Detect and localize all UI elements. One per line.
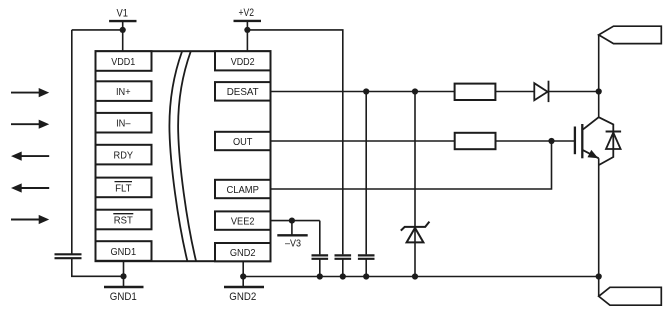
wire +V2 to VDD2 rail: [247, 30, 342, 255]
wire DESAT cap branch: [365, 92, 367, 255]
capacitor C4: [358, 255, 375, 258]
arrow RDY output: [11, 152, 49, 161]
wire GND2 pin down: [242, 261, 244, 287]
wire zener branch: [414, 92, 416, 277]
pin VDD1: [96, 51, 152, 71]
svg-text:CLAMP: CLAMP: [226, 184, 259, 196]
wire OUT: [271, 140, 455, 142]
wire V1 to left rail: [72, 29, 123, 31]
svg-text:GND1: GND1: [110, 246, 136, 258]
pin GND2: [215, 243, 271, 261]
svg-text:RST: RST: [114, 214, 134, 226]
pin GND1: [96, 241, 152, 261]
wire GND1 pin down: [123, 261, 125, 287]
svg-text:OUT: OUT: [233, 136, 253, 148]
wire emitter down: [598, 158, 600, 296]
svg-text:GND2: GND2: [229, 291, 256, 303]
junction GND2 node: [240, 273, 246, 279]
transistor Q1 IGBT: [575, 117, 599, 158]
wire VEE2: [271, 220, 320, 222]
junction gate node: [548, 138, 554, 144]
pin IN-: [96, 113, 152, 133]
arrow IN- input: [11, 120, 49, 129]
svg-text:+V2: +V2: [239, 7, 255, 19]
wire C4 to GND2 rail: [365, 260, 367, 277]
pin VEE2: [215, 211, 271, 229]
wire GND2 rail: [243, 276, 599, 278]
power symbol -V3: [277, 221, 307, 236]
svg-text:–V3: –V3: [285, 238, 301, 249]
junction V1 node: [120, 27, 126, 33]
pin VDD2: [215, 51, 271, 70]
junction VEE2 node: [289, 218, 295, 224]
svg-text:VEE2: VEE2: [231, 215, 255, 227]
junction C4 rail: [363, 273, 369, 279]
junction zener node: [412, 88, 418, 94]
diode D1: [534, 81, 548, 102]
svg-text:GND1: GND1: [110, 291, 137, 303]
junction DESAT blanking node: [363, 88, 369, 94]
pin FLT: [96, 178, 152, 198]
wire C2 to GND2 rail: [319, 260, 321, 277]
zener diode D3: [401, 222, 430, 243]
pin RDY: [96, 145, 152, 165]
arrow RST input: [11, 215, 49, 224]
pin RST: [96, 210, 152, 230]
wire collector up to flag: [598, 35, 600, 118]
wire D1 to collector: [549, 91, 599, 93]
svg-text:VDD2: VDD2: [231, 56, 255, 68]
svg-text:RDY: RDY: [114, 150, 134, 162]
wire R1 to D1: [495, 91, 534, 93]
isolation barrier curve 1: [169, 52, 187, 261]
junction emitter rail node: [596, 273, 602, 279]
wire left VDD1 rail: [71, 30, 73, 254]
resistor R2: [455, 133, 496, 149]
svg-text:V1: V1: [116, 7, 128, 19]
junction +V2 node: [244, 27, 250, 33]
arrow IN+ input: [11, 88, 49, 97]
isolation barrier curve 2: [178, 52, 196, 261]
junction collector node: [596, 88, 602, 94]
capacitor C1: [55, 254, 82, 258]
svg-text:GND2: GND2: [230, 247, 256, 259]
resistor R1: [455, 84, 496, 100]
svg-text:FLT: FLT: [115, 182, 132, 194]
junction C3 rail: [340, 273, 346, 279]
svg-text:IN+: IN+: [116, 86, 131, 98]
wire VEE2 to C2: [319, 221, 321, 255]
svg-text:VDD1: VDD1: [111, 56, 135, 68]
arrow FLT output: [11, 183, 49, 192]
ground GND2: [224, 286, 264, 289]
junction C2 rail: [317, 273, 323, 279]
wire R2 to gate: [496, 140, 575, 142]
pin CLAMP: [215, 180, 271, 198]
svg-text:IN–: IN–: [116, 118, 131, 130]
wire C3 to GND2 rail: [342, 260, 344, 277]
junction zener rail: [412, 273, 418, 279]
capacitor C2: [312, 255, 329, 258]
power symbol +V2: [234, 21, 262, 52]
junction GND1 node: [120, 273, 126, 279]
ground GND1: [104, 286, 144, 289]
wire C1 to GND1 node: [72, 259, 124, 276]
op-amp U1 outline (isolated gate driver IC): [96, 51, 271, 261]
diode D2 freewheel: [599, 117, 621, 165]
power symbol V1: [109, 21, 136, 51]
pin DESAT: [215, 82, 271, 101]
pin IN+: [96, 81, 152, 101]
wire DESAT: [271, 91, 455, 93]
pin OUT: [215, 132, 271, 150]
node top flag HV bus: [599, 26, 662, 43]
svg-text:DESAT: DESAT: [227, 86, 260, 98]
wire CLAMP: [271, 141, 552, 189]
capacitor C3: [335, 255, 352, 258]
node bottom flag phase: [599, 287, 662, 305]
